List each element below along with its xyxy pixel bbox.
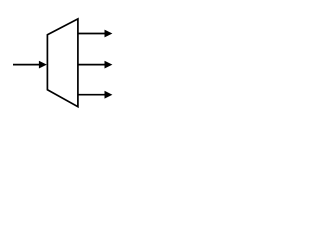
output wire 3	[78, 94, 105, 96]
input wire	[13, 64, 40, 66]
input arrowhead	[39, 61, 47, 69]
output wire 2	[78, 64, 105, 66]
output arrowhead 1	[105, 30, 113, 38]
demultiplexer body U1	[47, 19, 78, 107]
output wire 1	[78, 33, 105, 35]
output arrowhead 3	[105, 91, 113, 99]
output arrowhead 2	[105, 61, 113, 69]
